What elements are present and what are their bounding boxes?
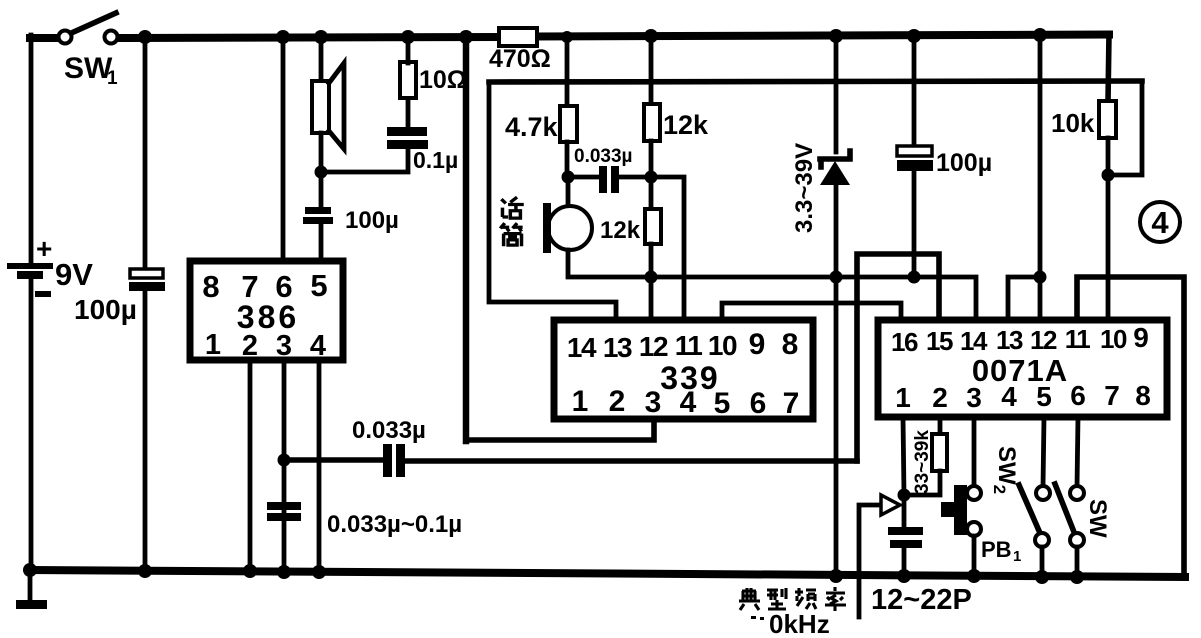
wire bus to 4.7k — [565, 39, 570, 107]
svg-text:13: 13 — [603, 332, 632, 363]
push button PB1 — [941, 485, 981, 536]
diode D1 zener 3.3~39V — [820, 151, 850, 185]
node top bus x1040 — [1033, 28, 1047, 42]
wire left rail upper (battery +) — [29, 35, 34, 266]
label hua (Chinese: speech) — [501, 197, 523, 218]
svg-text:33~39k: 33~39k — [912, 430, 933, 494]
node 10k bottom — [1102, 169, 1115, 182]
wire 33~39k bottom to node — [906, 471, 940, 495]
node pin12/pin13 tie — [1034, 271, 1047, 284]
wire bus to 386 pin6 — [281, 39, 286, 262]
svg-text:0.033µ~0.1µ: 0.033µ~0.1µ — [327, 511, 462, 538]
node bottom bus x904 — [897, 569, 911, 583]
wire 0071A pin2 to 33~39k — [938, 417, 943, 435]
battery B1 plate long (+) — [7, 263, 53, 269]
resistor R5 12k lower — [645, 209, 661, 244]
node bottom bus x319 — [312, 565, 326, 579]
svg-text:6: 6 — [1070, 380, 1086, 411]
wire top bus segment right of 470R — [536, 35, 1109, 37]
wire 4.7k to mic node — [565, 142, 570, 177]
wire 0071A pin11 up right and down right edge to bottom bus — [1077, 277, 1184, 578]
svg-text:470Ω: 470Ω — [489, 45, 551, 73]
node zener bottom bus — [829, 569, 843, 583]
svg-text:6: 6 — [750, 387, 767, 420]
node bottom bus x974 — [967, 569, 981, 583]
wire top bus segment between SW1 and 470R — [118, 37, 500, 38]
node top bus x466 — [459, 30, 473, 44]
battery B1 plate short (-) — [17, 271, 43, 279]
pin numbers 0071A bottom 1 2 3 4 5 6 7 8 — [895, 380, 1151, 413]
node 12k bottom on y277 wire — [645, 271, 658, 284]
node top bus x408 — [401, 30, 415, 44]
wire 386 pin4 to bottom bus — [317, 360, 322, 572]
wire 0071A pin1 down to node — [903, 417, 904, 495]
svg-text:15: 15 — [926, 326, 953, 356]
wire 0071A pin13 to pin12 line — [1008, 277, 1040, 321]
svg-text:0.033µ: 0.033µ — [352, 417, 426, 444]
svg-text:12: 12 — [639, 331, 668, 362]
label pin (Chinese: frequency) — [795, 588, 816, 609]
wire top bus left segment A (battery + rail to SW1) — [30, 34, 58, 42]
op-amp U2 339 body — [554, 320, 813, 419]
svg-text:10: 10 — [708, 330, 737, 361]
node top bus x651 — [644, 29, 658, 43]
wire 386 pin3 down — [282, 360, 287, 572]
svg-text:0kHz: 0kHz — [769, 609, 830, 638]
label dian (Chinese: typical) — [739, 588, 760, 610]
svg-text:1: 1 — [895, 382, 911, 413]
wire bus to 12k upper — [649, 39, 654, 105]
svg-text:5: 5 — [1036, 381, 1052, 412]
svg-text:8: 8 — [1135, 380, 1151, 411]
pin numbers 339 bottom 1 2 3 4 5 6 7 — [572, 385, 800, 420]
wire pin3 feed horizontal and up to 339 pin3 — [466, 419, 654, 440]
svg-text:100µ: 100µ — [74, 294, 137, 325]
pin numbers 0071A top 16 15 14 13 12 11 10 9 — [891, 322, 1149, 357]
svg-text:1: 1 — [107, 68, 118, 89]
node bottom bus x284 — [277, 565, 291, 579]
wire 12k lower to y277 node and 339 pin12 — [649, 244, 654, 321]
svg-text:4: 4 — [680, 386, 697, 419]
node top bus x283 — [276, 30, 290, 44]
svg-text:3: 3 — [276, 330, 292, 362]
wire 12~22P to bottom bus — [902, 548, 907, 576]
node speaker bottom x321 — [315, 166, 328, 179]
svg-text:2: 2 — [609, 385, 626, 418]
wire ground stub — [28, 572, 33, 601]
op-amp U3 0071A body — [878, 320, 1167, 417]
svg-text:PB: PB — [981, 537, 1012, 562]
resistor R2 470R (in series with top bus) — [499, 28, 537, 46]
node bottom bus left corner — [23, 563, 37, 577]
svg-text:1: 1 — [572, 385, 589, 418]
node top bus x914 — [907, 29, 921, 43]
wire bus drop x1040 to 0071A pin12 — [1038, 39, 1043, 321]
switch SW2 — [1019, 485, 1050, 547]
svg-text:0071A: 0071A — [972, 353, 1068, 388]
label battery - sign — [35, 291, 51, 297]
svg-text:1: 1 — [205, 329, 221, 361]
wire feedback left edge down and over to 339 pin13 — [489, 82, 616, 321]
svg-text:0.1µ: 0.1µ — [413, 147, 458, 173]
svg-text:12k: 12k — [600, 217, 641, 244]
node top bus x567 — [561, 31, 573, 43]
wire bus to 10R — [406, 39, 411, 63]
svg-text:14: 14 — [960, 326, 988, 356]
wire thick bus drop x466 to 339 pin3 loop — [463, 39, 470, 441]
arrowhead pointer — [881, 495, 900, 515]
node zener on y277 wire — [830, 271, 843, 284]
capacitor C2 100u speaker coupling — [303, 172, 333, 262]
wire PB1 to bottom bus — [972, 536, 977, 576]
wire 10k node down to 0071A pin10 — [1106, 175, 1111, 321]
wire 386 pin2 to bottom bus — [248, 360, 253, 572]
svg-text:3: 3 — [966, 382, 982, 413]
svg-text:SW: SW — [1084, 499, 1111, 538]
wire 0071A pin3 to PB1 — [972, 417, 977, 487]
wire 12k upper to node — [649, 141, 654, 177]
svg-text:12~22P: 12~22P — [871, 584, 972, 616]
resistor R1 10R — [400, 62, 416, 98]
node bottom bus x250 — [243, 564, 257, 578]
wire bus to speaker — [319, 39, 324, 83]
svg-text:14: 14 — [567, 332, 597, 363]
wire speaker to node — [319, 133, 324, 172]
svg-text:100µ: 100µ — [936, 149, 992, 177]
pin numbers 386 bottom 1 2 3 4 — [205, 329, 326, 362]
resistor R3 4.7k — [560, 106, 577, 142]
node 100u bottom on y277 wire — [908, 271, 921, 284]
wire zener to bottom bus — [834, 184, 839, 576]
capacitor 0.1u bars — [387, 127, 428, 149]
wire 0071A pin6 to SW — [1077, 417, 1078, 487]
wire node to 12~22P cap — [902, 495, 907, 528]
node top bus x145 — [138, 30, 152, 44]
wire node to 12k lower — [649, 177, 654, 210]
capacitor C6 12~22P bars — [888, 527, 923, 548]
svg-text:8: 8 — [782, 328, 799, 361]
svg-text:11: 11 — [675, 330, 703, 361]
wire 12k node right to 339 pin11 — [651, 177, 684, 321]
pin numbers 339 top 14 13 12 11 10 9 8 — [567, 328, 798, 363]
resistor R7 33~39k — [932, 434, 947, 471]
svg-text:4.7k: 4.7k — [505, 112, 559, 142]
capacitor 0.033u mic bars — [599, 166, 619, 193]
svg-text:9: 9 — [749, 328, 766, 361]
wire 100u cap line lower — [143, 291, 148, 571]
svg-text:7: 7 — [1104, 380, 1120, 411]
resistor R6 10k — [1099, 101, 1116, 138]
wire bus right corner to 10k — [1108, 34, 1109, 102]
wire riser up and bump to 0071A pin15 — [857, 254, 939, 461]
svg-text:SW: SW — [64, 52, 113, 85]
svg-text:5: 5 — [714, 387, 731, 420]
svg-text:4: 4 — [1151, 205, 1169, 240]
svg-text:12k: 12k — [663, 110, 709, 140]
label xing (Chinese: model) — [767, 588, 786, 609]
svg-text:5: 5 — [310, 268, 327, 303]
svg-text:1: 1 — [1013, 548, 1021, 565]
capacitor C5 100u right (electrolytic) — [897, 146, 933, 171]
wire 100u right to y277 node — [912, 171, 917, 278]
label circled 4 figure number — [1140, 202, 1180, 242]
node top bus x321 — [314, 30, 328, 44]
wire pointer from frequency label with arrow — [859, 505, 882, 617]
wire 0071A pin5 to SW2 — [1043, 417, 1044, 487]
node 12k divider mid — [645, 171, 658, 184]
node bottom bus x1077 — [1070, 570, 1084, 584]
svg-text:10: 10 — [1100, 324, 1127, 354]
speaker LS1 — [312, 63, 344, 149]
svg-text:0.033µ: 0.033µ — [574, 146, 633, 167]
wire node to 0.033u mic cap — [568, 175, 600, 180]
wire bottom bus — [30, 570, 1185, 577]
svg-text:13: 13 — [996, 325, 1023, 355]
svg-text:2: 2 — [242, 330, 258, 362]
svg-text:4: 4 — [1001, 381, 1017, 412]
ground — [16, 600, 47, 609]
wire left rail lower (battery - to bottom bus) — [29, 279, 34, 571]
capacitor 0.033u coupling bars — [383, 444, 405, 477]
wire SW2 to bottom bus — [1040, 547, 1045, 577]
wire mic bottom to y277 rail and over to 0071A pin14 — [568, 250, 976, 321]
wire 339 pin10 to 0071A pin16 — [722, 303, 901, 321]
svg-text:9V: 9V — [55, 257, 93, 292]
pin numbers 386 top 8 7 6 5 — [202, 268, 327, 304]
label tong (Chinese: tube) — [500, 223, 522, 246]
svg-text:9: 9 — [1133, 322, 1149, 353]
capacitor 0.033u-0.1u bars — [267, 502, 301, 521]
svg-text:2: 2 — [932, 382, 948, 413]
wire node to 0.1u cap — [321, 149, 408, 172]
wire long 0.033u coupling left segment — [284, 457, 384, 463]
node junction pin3/long cap wire — [278, 454, 291, 467]
svg-text:+: + — [36, 233, 52, 264]
op-amp U1 386 body — [190, 261, 343, 360]
label ellipsis dots before 0kHz — [751, 616, 756, 619]
svg-text:16: 16 — [891, 327, 918, 357]
wire feedback right drop to 10k bottom node — [1108, 81, 1142, 175]
node trimmer cap top — [898, 489, 911, 502]
svg-text:7: 7 — [783, 387, 800, 420]
svg-text:3: 3 — [645, 386, 662, 419]
wire 0.1u to 10R — [406, 98, 411, 128]
wire mic cap to 12k node — [618, 175, 651, 180]
svg-text:10Ω: 10Ω — [419, 66, 467, 94]
wire feedback top horizontal y81 — [489, 81, 1142, 82]
switch SW1 — [59, 13, 118, 44]
svg-text:10k: 10k — [1051, 108, 1095, 138]
svg-text:11: 11 — [1065, 324, 1091, 354]
microphone MIC (hua tong) — [543, 177, 592, 253]
wire 10k to node — [1106, 138, 1111, 175]
svg-text:3.3~39V: 3.3~39V — [791, 143, 818, 233]
svg-text:100µ: 100µ — [345, 207, 399, 234]
wire bus to zener — [834, 39, 839, 152]
switch SW — [1055, 484, 1084, 547]
node top bus x836 — [829, 29, 843, 43]
wire 100u filter cap line upper — [143, 39, 148, 271]
node bottom bus x1042 — [1035, 570, 1049, 584]
wire SW to bottom bus — [1075, 547, 1080, 578]
node bottom bus x145 — [138, 564, 152, 578]
node mic/4.7k junction — [562, 171, 575, 184]
capacitor C1 100u (electrolytic, left) — [129, 269, 165, 291]
label lv (Chinese: rate) — [825, 587, 846, 611]
wire bus to 100u right cap — [912, 39, 917, 148]
svg-text:8: 8 — [202, 269, 219, 304]
resistor R4 12k upper — [644, 104, 660, 141]
svg-text:4: 4 — [310, 330, 326, 362]
svg-text:12: 12 — [1030, 325, 1057, 355]
wire long 0.033u coupling right segment to riser — [405, 458, 857, 464]
